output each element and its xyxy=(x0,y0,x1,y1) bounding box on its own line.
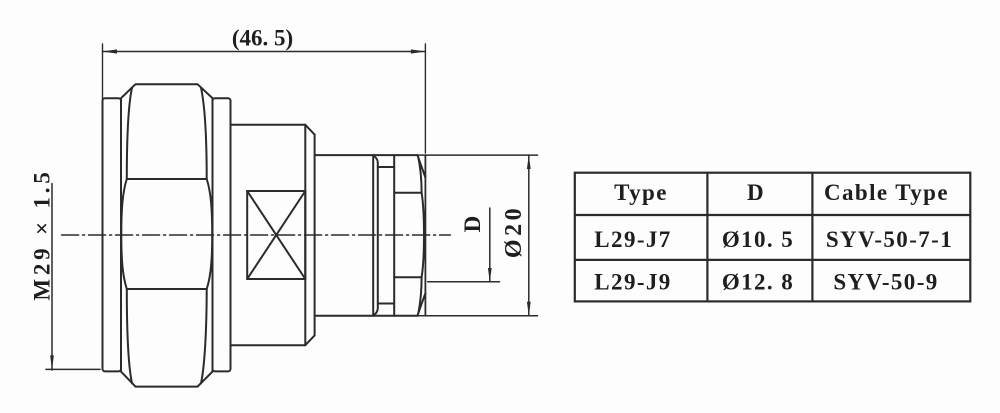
left flange of coupling nut xyxy=(103,98,122,371)
hex arc top-right xyxy=(201,88,207,179)
clamp nut start line xyxy=(393,155,395,316)
arrow right of 46.5 xyxy=(411,49,426,53)
washer line 2 xyxy=(375,157,378,315)
collar chamfer line top xyxy=(378,166,394,168)
svg-text:(46. 5): (46. 5) xyxy=(232,26,293,51)
body chamfer top xyxy=(305,125,314,135)
svg-text:Cable Type: Cable Type xyxy=(824,180,949,205)
clamp nut arc middle xyxy=(422,193,424,278)
diameter 20 extension line top xyxy=(417,154,537,156)
hex facet line upper xyxy=(127,178,207,180)
M29 arrow xyxy=(50,355,54,369)
svg-text:D: D xyxy=(747,180,765,205)
D dimension line xyxy=(489,208,491,282)
flat-surface box xyxy=(247,191,305,279)
diameter 20 arrow top xyxy=(527,155,531,169)
svg-text:M29 × 1.5: M29 × 1.5 xyxy=(30,168,55,300)
body chamfer bottom xyxy=(305,335,314,345)
hex arc top-left xyxy=(127,88,132,179)
hex arc bottom-left xyxy=(127,289,132,383)
hex coupling nut outline xyxy=(121,84,213,386)
collar chamfer line bottom xyxy=(378,303,394,305)
diameter 20 arrow bottom xyxy=(527,302,531,316)
svg-text:SYV-50-9: SYV-50-9 xyxy=(833,270,938,295)
rear section top edge xyxy=(315,154,418,156)
clamp nut chamfer top xyxy=(417,155,425,177)
arrow left of 46.5 xyxy=(103,49,118,53)
clamp nut arc top xyxy=(418,157,421,192)
body chamfer start line xyxy=(304,125,306,345)
D extension line xyxy=(428,281,500,283)
clamp nut arc bottom xyxy=(418,277,421,313)
hex arc mid-left xyxy=(121,179,127,289)
table grid xyxy=(575,173,971,302)
M29 extension line xyxy=(46,368,100,370)
hex arc bottom-right xyxy=(201,289,207,383)
dimension 46.5 line xyxy=(103,51,426,53)
body cylinder top edge xyxy=(231,124,306,126)
hex facet line lower xyxy=(127,288,207,290)
diameter 20 extension line bottom xyxy=(417,315,537,317)
dimension 46.5 extension line right xyxy=(424,44,426,153)
svg-text:L29-J7: L29-J7 xyxy=(594,227,671,252)
svg-text:Ø12. 8: Ø12. 8 xyxy=(722,270,794,295)
hex arc mid-right xyxy=(207,179,213,289)
table outer border xyxy=(575,173,971,302)
flat-surface diagonal 2 xyxy=(247,191,305,279)
diameter 20 dimension line xyxy=(528,155,530,316)
rear section bottom edge xyxy=(315,315,418,317)
body end face xyxy=(314,135,316,336)
table column line 1 xyxy=(706,173,708,302)
center line xyxy=(62,234,451,236)
flat-surface diagonal 1 xyxy=(247,191,305,279)
dimension 46.5 extension line left xyxy=(102,44,104,99)
right flange of coupling nut xyxy=(213,98,231,371)
table row line 1 xyxy=(575,214,971,216)
table column line 2 xyxy=(811,173,813,302)
svg-text:Ø10. 5: Ø10. 5 xyxy=(722,227,794,252)
clamp nut right edge xyxy=(424,155,426,316)
svg-text:L29-J9: L29-J9 xyxy=(594,270,671,295)
svg-text:D: D xyxy=(460,216,485,233)
washer line 1 xyxy=(372,155,374,316)
M29 dimension line xyxy=(51,184,53,371)
clamp nut facet line upper xyxy=(394,192,421,194)
svg-text:SYV-50-7-1: SYV-50-7-1 xyxy=(826,227,953,252)
svg-text:Ø20: Ø20 xyxy=(501,205,527,258)
table row line 2 xyxy=(575,259,971,261)
clamp nut chamfer bottom xyxy=(417,293,425,316)
D arrow xyxy=(488,268,492,282)
clamp nut facet line lower xyxy=(394,276,421,278)
body cylinder bottom edge xyxy=(231,344,306,346)
svg-text:Type: Type xyxy=(614,180,668,205)
